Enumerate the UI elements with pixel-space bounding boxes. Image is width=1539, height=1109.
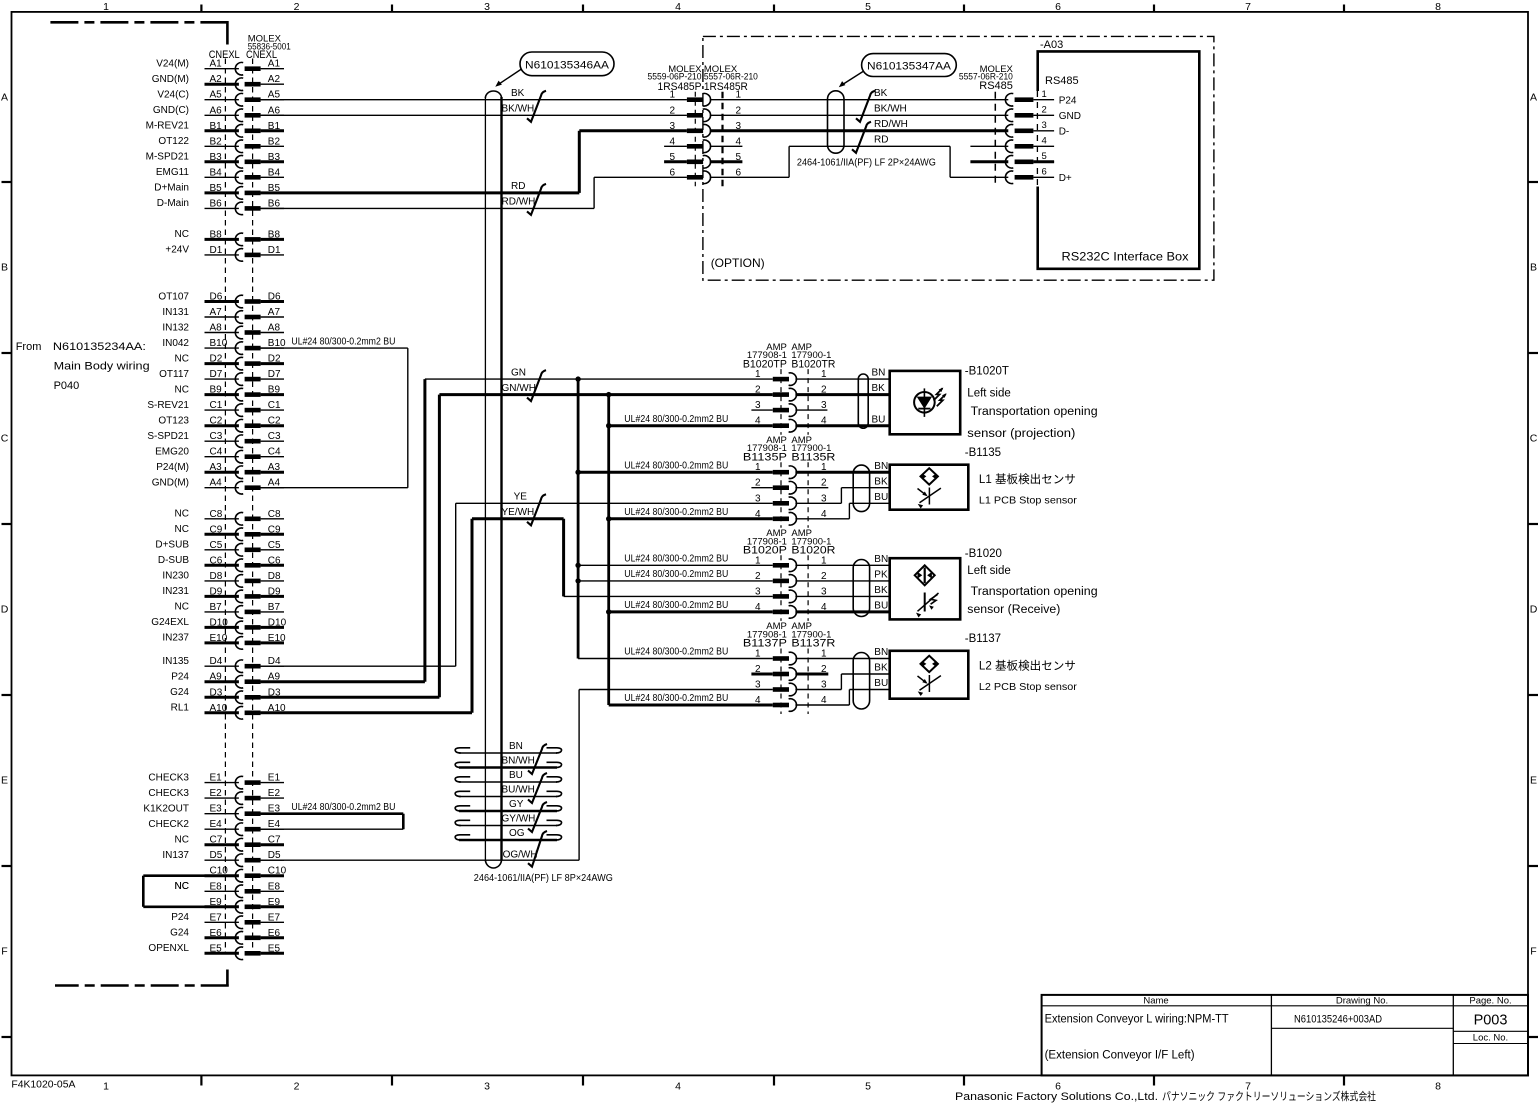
svg-text:RS485: RS485 [1045,75,1079,87]
wire junction pin3 to RS485 pin3 (RD/WH) thick [710,129,1009,132]
svg-text:P24: P24 [171,672,189,683]
wire B1020TP pin3 stub left [751,409,772,411]
cable tube 8P right wall [500,97,502,861]
svg-text:D: D [1530,604,1538,616]
cable oval 2P marker [828,91,845,153]
wire B1020TR pin2 to sensor (BK) [795,393,889,396]
svg-text:IN042: IN042 [162,338,189,349]
sensor B1020T LED symbol bar [918,408,930,410]
wire B1137R pin3 to sensor (BK) [841,673,889,675]
svg-text:UL#24 80/300-0.2mm2 BU: UL#24 80/300-0.2mm2 BU [624,569,728,580]
svg-text:S-REV21: S-REV21 [147,400,189,411]
junction dot P24 bus B1135 pin1 [575,470,580,475]
wire A10 RL1 horizontal [261,711,472,714]
sensor B1137 beam symbol vertical line [928,675,930,692]
svg-text:B: B [1530,262,1537,274]
wire D5 IN137 horizontal (OG/WH) [261,859,579,861]
svg-text:GY: GY [509,799,524,810]
svg-text:2: 2 [1042,105,1047,116]
svg-text:(Extension Conveyor I/F Left): (Extension Conveyor I/F Left) [1045,1049,1195,1061]
svg-text:7: 7 [1245,1,1251,13]
sensor B1137 beam return line [920,676,941,691]
sensor B1137 diamond inner right triangle [933,662,936,666]
svg-text:5: 5 [865,1,871,13]
svg-text:E: E [1,775,8,787]
wire A10 riser to YE/WH row [471,519,474,713]
svg-text:1: 1 [755,369,761,380]
svg-text:EMG11: EMG11 [156,167,190,178]
connector B1020TP pin 3 contact [773,408,789,413]
svg-text:6: 6 [1042,167,1047,178]
sensor box B1135 [890,465,969,510]
sensor B1020 receiver incoming beam [918,593,939,611]
svg-text:-B1020: -B1020 [965,548,1002,560]
machine boundary corner bottom [226,970,229,987]
connector B1135P pin 1 contact [773,470,789,475]
svg-text:BN: BN [874,647,888,658]
svg-text:G24EXL: G24EXL [151,617,189,628]
svg-text:+24V: +24V [165,245,189,256]
svg-text:BU: BU [874,601,888,612]
connector 1RS485P/1RS485R pin 6 contact [687,175,703,180]
svg-text:N610135246+003AD: N610135246+003AD [1294,1013,1382,1025]
svg-text:NC: NC [175,353,189,364]
svg-text:UL#24 80/300-0.2mm2 BU: UL#24 80/300-0.2mm2 BU [624,507,728,518]
sensor B1020T LED symbol triangle [918,397,931,407]
svg-text:BU: BU [509,770,523,781]
sensor B1020T emission arrow 1 [934,388,943,400]
svg-text:Left side: Left side [967,565,1010,577]
sensor B1135 diamond inner left triangle [923,474,926,478]
svg-text:B: B [1,262,8,274]
sensor B1020T LED symbol cathode line [923,388,925,417]
connector CNEXL pin-column dashed line left [224,59,226,954]
harness box B10-A4 top wire [261,347,408,349]
svg-text:RL1: RL1 [171,703,190,714]
svg-text:6: 6 [669,167,675,178]
svg-text:B1020TR: B1020TR [791,358,835,370]
sensor B1020 receiver lightning [931,595,938,605]
svg-text:D-: D- [1059,126,1070,137]
wire D4 IN135 horizontal [261,665,456,667]
connector CNEXL pin-column dashed line right [252,59,254,956]
svg-text:(OPTION): (OPTION) [711,256,765,270]
svg-text:NC: NC [175,602,189,613]
svg-text:NC: NC [175,835,189,846]
svg-text:BK: BK [874,663,888,674]
svg-text:OG/WH: OG/WH [503,850,538,861]
svg-text:8: 8 [1435,1081,1441,1093]
junction dot GN / P24 bus [575,376,580,381]
wire YE/WH drop to B1020P pin3 row [562,519,565,597]
cable tag oval N610135346AA [520,52,614,76]
svg-text:4: 4 [675,1,681,13]
wire GN/WH from D3 riser to B1020TP pin2 [439,393,772,396]
svg-text:P24(M): P24(M) [156,462,189,473]
wire B1020TR pin1 to sensor (BN) [795,378,889,380]
svg-text:-B1137: -B1137 [965,633,1001,645]
connector 1RS485P/1RS485R pin 4 contact [687,144,703,149]
cable tube 8P top cap [485,91,501,98]
svg-text:BN: BN [874,461,888,472]
svg-text:BU: BU [874,492,888,503]
connector B1020P pin 2 contact [773,579,789,584]
svg-text:2: 2 [294,1081,300,1093]
svg-text:D+: D+ [1059,173,1072,184]
connector 1RS485P/1RS485R pin 2 contact [687,113,703,118]
connector RS485 pin 6 contact [1005,171,1013,184]
wire to 1RS485P pin3 horizontal [579,129,687,132]
wire B1137P pin3 from D5 [579,689,773,691]
connector 1RS485P/1RS485R pin 1 contact [687,97,703,102]
elevated RD wire left riser [788,146,790,177]
svg-text:CHECK3: CHECK3 [148,788,189,799]
connector B1020TP dashed centerline [780,369,782,435]
svg-text:RS485: RS485 [979,80,1013,92]
svg-text:BN: BN [874,554,888,565]
sensor B1020 diamond center bar [924,568,926,584]
spare core BN/WH cut wire [459,766,557,769]
pair marker RD pair [527,184,546,215]
svg-text:GN/WH: GN/WH [502,383,536,394]
connector 1RS485P/1RS485R pin 5 contact [687,160,703,165]
svg-text:B1020TP: B1020TP [743,358,787,370]
cable oval B1137 [853,653,869,710]
wire RS485 pin5 stub left [970,160,1008,163]
pair marker BU pair [528,773,547,803]
pair marker RD pair (option) [852,122,871,153]
wire B1020TR pin3 stub [795,409,827,411]
cable oval B1020T [858,374,868,428]
svg-text:CHECK2: CHECK2 [148,819,189,830]
wire B1137R pin4 step right [795,704,849,706]
wire RS485 pin4 stub left [970,145,1008,147]
svg-text:Panasonic Factory Solutions Co: Panasonic Factory Solutions Co.,Ltd. [955,1091,1158,1103]
svg-text:YE/WH: YE/WH [502,507,535,518]
cable oval B1020 [853,560,869,617]
svg-text:OT123: OT123 [158,416,189,427]
svg-text:GND(M): GND(M) [152,74,189,85]
junction dot GN\WH / G24 bus [606,392,611,397]
sensor B1137 diamond symbol [921,656,938,672]
wire YE/WH from A10 riser [472,517,564,520]
svg-text:BK: BK [874,88,888,99]
connector RS485 pin 4 contact [1005,140,1013,153]
svg-text:4: 4 [1042,136,1047,147]
svg-text:NC: NC [175,524,189,535]
svg-text:NC: NC [175,881,189,892]
svg-text:D-SUB: D-SUB [158,555,189,566]
sensor B1020 receiver vertical line [924,593,926,612]
junction dot P24 bus B1020 pin2 [575,578,580,583]
wire A9 riser to GN row [423,379,426,682]
svg-text:3: 3 [755,493,761,504]
svg-text:UL#24 80/300-0.2mm2 BU: UL#24 80/300-0.2mm2 BU [624,600,728,611]
svg-text:2464-1061/IIA(PF) LF 2P×24AWG: 2464-1061/IIA(PF) LF 2P×24AWG [797,157,936,168]
connector RS485 pin 5 contact [1005,155,1013,168]
svg-text:UL#24 80/300-0.2mm2 BU: UL#24 80/300-0.2mm2 BU [624,414,728,425]
frame column ticks top [200,5,202,12]
connector B1137P pin 3 contact [773,687,789,692]
svg-text:BK: BK [874,476,888,487]
connector B1020P pin 3 contact [773,594,789,599]
svg-text:sensor (projection): sensor (projection) [967,428,1075,440]
frame row ticks left [2,181,12,183]
connector B1135P pin 2 contact [773,485,789,490]
pair marker OG pair [528,831,547,867]
svg-text:BU: BU [872,414,886,425]
frame row ticks right [1528,181,1538,183]
svg-text:Main Body wiring: Main Body wiring [54,361,150,373]
svg-text:BN/WH: BN/WH [502,755,535,766]
sensor box B1137 [890,651,969,699]
frame column ticks bottom [200,1075,202,1085]
wire 1RS485P pin5 stub left [664,160,687,163]
sensor B1020 diamond inner left triangle [918,573,921,578]
wire G24 bus to B1135P pin4 [609,517,773,520]
connector B1135P dashed centerline [780,462,782,528]
spare core BN cut wire [459,752,557,754]
svg-text:IN137: IN137 [162,850,189,861]
wire B6 D-Main horizontal (RD/WH) [261,207,594,209]
connector B1020P pin 4 contact [773,610,789,615]
svg-text:-A03: -A03 [1040,39,1063,51]
sensor B1020T emission arrow 2 [937,394,946,406]
sensor B1020T LED symbol circle [914,392,935,413]
sensor B1020 diamond symbol [915,565,935,585]
svg-text:BU: BU [874,678,888,689]
wire B1020R pin1 to sensor (BN) [795,564,889,566]
svg-text:M-REV21: M-REV21 [146,121,190,132]
svg-text:E: E [1530,775,1537,787]
machine boundary dash-dot bottom [55,984,229,987]
svg-text:2: 2 [294,1,300,13]
connector B1020P dashed centerline [780,555,782,621]
connector B1020TP pin 2 contact [773,392,789,397]
connector B1135P pin 4 contact [773,517,789,522]
elevated RD wire right riser [949,146,951,177]
svg-text:BK: BK [874,585,888,596]
svg-text:V24(M): V24(M) [156,59,189,70]
spare core GY/WH cut wire [459,825,557,827]
svg-text:IN131: IN131 [162,307,189,318]
sensor B1135 diamond symbol [921,468,938,484]
wire P24 bus corner to B1137P pin1 [578,658,773,660]
svg-text:OT117: OT117 [159,369,189,380]
svg-text:G24: G24 [170,928,189,939]
spare core OG cut wire [459,839,557,842]
wire D3 G24 horizontal [261,696,440,699]
svg-text:3: 3 [755,586,761,597]
svg-text:8: 8 [1435,1,1441,13]
wire A5 V24(C) to 1RS485P pin1 (BK) [261,99,687,101]
wire D4 riser to YE row [455,503,457,666]
wire junction pin2 to RS485 pin2 (BK/WH) [710,114,1009,116]
connector B1137P pin 1 contact [773,656,789,661]
wire B5 D+Main horizontal (RD) [261,191,580,194]
wire B1135R pin3 to sensor (BK) [841,487,889,489]
svg-text:BK/WH: BK/WH [874,104,907,115]
wire B1137P pin2 stub left thick [751,673,772,676]
cable tag leader arrow [498,69,522,85]
svg-text:NC: NC [175,229,189,240]
wire elevated RD to RS485 pin6 [950,176,1008,178]
junction dot P24 bus B1020 pin1 [575,563,580,568]
svg-text:BN: BN [509,741,523,752]
svg-text:Transportation opening: Transportation opening [971,406,1098,418]
svg-text:UL#24 80/300-0.2mm2 BU: UL#24 80/300-0.2mm2 BU [291,336,395,347]
svg-text:3: 3 [484,1,490,13]
svg-text:GND(C): GND(C) [153,105,189,116]
svg-text:-B1020T: -B1020T [965,366,1009,378]
svg-text:IN231: IN231 [162,586,189,597]
svg-text:OT107: OT107 [158,291,189,302]
wire B1137R pin2 stub [795,673,828,676]
svg-text:sensor (Receive): sensor (Receive) [967,604,1060,616]
svg-text:5: 5 [865,1081,871,1093]
cable tag 347AA leader arrow [841,72,863,86]
connector 1RS485R dashed centerline [721,92,723,188]
svg-text:UL#24 80/300-0.2mm2 BU: UL#24 80/300-0.2mm2 BU [624,460,728,471]
junction dot G24 bus B1135 pin4 [606,516,611,521]
wire B1137R pin1 to sensor (BN) [795,658,889,660]
wire B1135P pin2 stub left [751,487,772,489]
wire P24 bus to B1020P pin1 [578,564,773,566]
title block outer frame [1042,995,1528,1076]
cable tag oval N610135347AA [862,54,957,77]
svg-text:55836-5001: 55836-5001 [248,42,291,53]
svg-text:1: 1 [669,90,675,101]
wire B1137R pin4 step up [848,690,850,706]
wire GN from A9 riser to B1020TP pin1 [425,378,773,380]
wire YE/WH to B1020P pin3 [564,595,773,597]
svg-text:RD/WH: RD/WH [502,196,536,207]
title block divider under Loc No [1453,1043,1528,1045]
wire P24 bus to B1135P pin1 [578,471,773,474]
machine boundary dash-dot top [50,21,227,24]
svg-text:F4K1020-05A: F4K1020-05A [11,1080,75,1091]
svg-text:パナソニック ファクトリーソリューションズ株式会社: パナソニック ファクトリーソリューションズ株式会社 [1162,1089,1376,1103]
svg-text:IN132: IN132 [162,322,189,333]
svg-text:P24: P24 [1059,95,1077,106]
svg-text:P040: P040 [54,380,80,392]
cable oval B1135 [853,465,869,512]
svg-text:B1137R: B1137R [791,638,835,650]
wire B1020R pin2 to sensor (PK) [795,580,889,582]
svg-text:EMG20: EMG20 [155,447,189,458]
svg-text:Transportation opening: Transportation opening [971,586,1098,598]
harness box B10-A4 right edge [407,348,409,488]
P24 bus vertical from GN row to B1137P pin1 [577,379,580,658]
svg-text:Left side: Left side [967,388,1010,400]
NC group box for pins C10 E8 E9 [143,874,204,877]
sensor B1135 beam arrow to reflector [918,489,927,496]
svg-text:NC: NC [175,509,189,520]
wire YE from D4 riser to B1135P pin3 [456,502,773,504]
connector B1137P pin 2 contact [773,672,789,677]
connector B1020R dashed centerline [807,555,809,621]
OPTION enclosure dash-dot box [703,36,1214,280]
sensor B1137 diamond inner left triangle [923,662,926,666]
wire D3 riser to GN/WH row [438,395,441,698]
spare core BU cut wire [459,781,557,783]
harness box E3-E4 right edge [402,814,405,830]
wire 1RS485P pin4 stub left [664,145,687,147]
machine boundary corner top right [226,21,229,45]
svg-text:4: 4 [675,1081,681,1093]
svg-text:A: A [1,92,8,104]
svg-text:F: F [1,946,7,958]
svg-text:OT122: OT122 [158,136,189,147]
svg-text:BU/WH: BU/WH [502,784,535,795]
svg-text:B1135P: B1135P [743,451,787,463]
wire G24 bus to B1020TP pin4 [609,424,773,427]
svg-text:UL#24 80/300-0.2mm2 BU: UL#24 80/300-0.2mm2 BU [624,693,728,704]
pair marker GN pair [527,370,546,401]
wire B1135R pin3 step right [795,502,841,504]
svg-text:UL#24 80/300-0.2mm2 BU: UL#24 80/300-0.2mm2 BU [291,802,395,813]
title block divider under P003 [1453,1030,1528,1032]
wire B1137R pin3 step up [840,674,842,690]
svg-text:6: 6 [1055,1,1061,13]
sensor B1020 diamond inner right triangle [928,573,931,578]
svg-text:From: From [16,341,42,353]
pair marker BK pair [527,91,546,122]
svg-text:RD/WH: RD/WH [874,119,908,130]
wire B1020R pin3 to sensor (BK) [795,595,889,597]
connector B1020TR dashed centerline [807,369,809,435]
wire B1137R pin3 step right [795,689,841,691]
pair marker BK pair (option) [856,91,875,122]
svg-text:3: 3 [1042,120,1047,131]
svg-text:1: 1 [103,1081,109,1093]
wire B6 riser to 1RS485P pin6 [593,177,595,208]
svg-text:K1K2OUT: K1K2OUT [143,804,189,815]
RS232C box edge dashed segment at connector [1036,91,1038,187]
svg-text:BN: BN [872,368,886,379]
svg-text:B1020P: B1020P [743,545,787,557]
svg-text:N610135234AA:: N610135234AA: [53,341,146,353]
connector B1137P pin 4 contact [773,703,789,708]
sensor B1135 beam symbol vertical line [928,488,930,505]
svg-text:RS232C Interface Box: RS232C Interface Box [1062,250,1189,264]
svg-text:BK: BK [511,88,525,99]
elevated RD wire horizontal [789,145,950,147]
title block divider under drawing number [1271,1027,1453,1029]
svg-text:IN230: IN230 [162,571,189,582]
junction dot G24 bus B1020 pin4 [606,609,611,614]
svg-text:D+Main: D+Main [154,183,189,194]
connector RS485 dashed centerline [994,92,996,186]
wire G24 bus to B1020P pin4 [609,610,773,613]
svg-text:D+SUB: D+SUB [155,540,189,551]
svg-text:C: C [1,433,9,445]
svg-text:D-Main: D-Main [157,198,189,209]
G24 bus vertical from GN/WH row to B1137P pin4 [607,395,610,705]
connector B1020TP pin 1 contact [773,377,789,382]
wire 1RS485R pin5 stub right [710,160,743,163]
svg-text:-B1135: -B1135 [965,447,1001,459]
wire P24 bus to B1020P pin2 [578,580,773,582]
svg-text:1RS485P: 1RS485P [658,81,702,93]
wire B1135R pin2 stub [795,487,828,489]
svg-text:GND(M): GND(M) [152,478,189,489]
wire B1135R pin4 step up [848,503,850,519]
spare core GY cut wire [459,810,557,813]
connector B1135P pin 3 contact [773,501,789,506]
sensor box B1020T [890,371,961,434]
svg-text:3: 3 [484,1081,490,1093]
